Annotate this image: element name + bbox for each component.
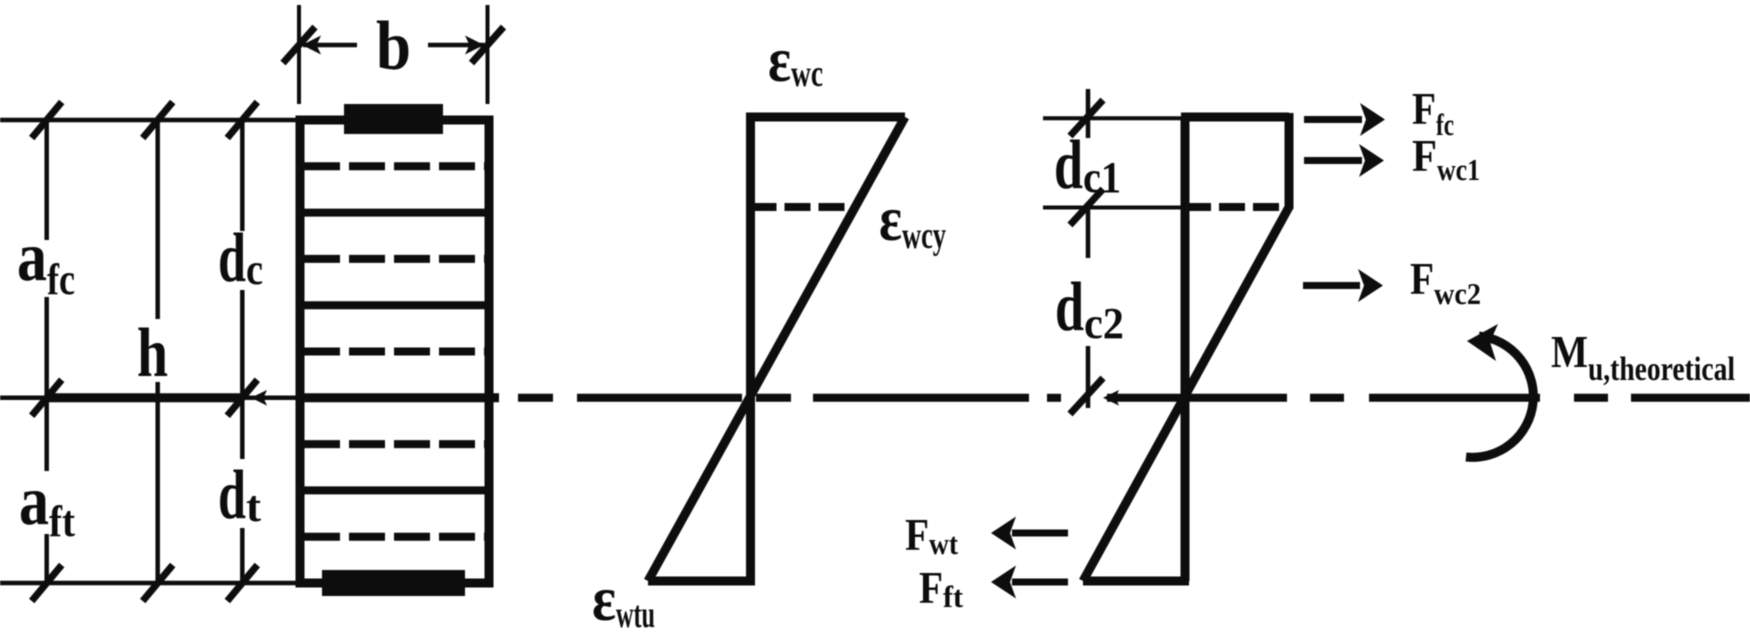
stress block dashed bottom of rectangular part xyxy=(1185,203,1289,211)
centerline dash 9 xyxy=(1574,394,1608,402)
tick mid a_fc xyxy=(32,380,62,416)
beam section outline xyxy=(300,120,489,583)
strain diagram bottom edge xyxy=(648,577,755,586)
tick top h xyxy=(143,102,173,138)
stress block top edge xyxy=(1181,113,1289,122)
dimension line d_c/d_t vertical x=242.3 xyxy=(240,120,245,231)
tick bottom h xyxy=(143,565,173,601)
tick bottom a_ft xyxy=(32,565,62,601)
tick d_c1 bottom xyxy=(1070,189,1103,225)
centerline dash 4 xyxy=(813,394,1029,402)
force arrow F_fc xyxy=(1304,116,1362,123)
dimension line h vertical x=157.7 xyxy=(155,120,160,319)
lamination dashed line 5 xyxy=(304,533,486,541)
dimension line a_fc/a_ft vertical x=46.7 xyxy=(44,120,49,240)
stress block diagonal xyxy=(1083,207,1289,581)
b dimension arrowhead left xyxy=(302,36,321,55)
force arrow F_wc2 xyxy=(1303,282,1360,289)
lamination dashed line 2 xyxy=(304,255,486,263)
mid line small arrowhead xyxy=(251,390,267,406)
lamination solid line 2 xyxy=(300,301,489,309)
force arrow F_wc1 xyxy=(1304,157,1362,164)
tick d_c2 bottom xyxy=(1070,378,1103,414)
lamination dashed line 1 xyxy=(304,162,486,170)
centerline dash 8 xyxy=(1369,394,1540,402)
centerline dash 10 xyxy=(1631,394,1750,402)
lamination solid line 1 xyxy=(300,209,489,217)
mid (neutral axis) line left thin segment xyxy=(0,396,44,401)
section neutral axis line xyxy=(296,393,499,402)
force arrow F_ft xyxy=(1012,579,1068,586)
moment arc arrowhead xyxy=(1467,324,1498,361)
top extension line left section xyxy=(0,118,300,123)
centerline dash 3 xyxy=(756,394,791,402)
b dimension arrowhead right xyxy=(465,36,484,55)
b dimension extension line right xyxy=(486,5,490,104)
svg-text:b: b xyxy=(376,8,411,85)
b dimension line left segment xyxy=(303,43,357,48)
tick bottom d_t xyxy=(227,565,257,601)
tick d_c1 top xyxy=(1070,100,1103,136)
stress block right edge xyxy=(1285,113,1294,209)
tick b right xyxy=(472,27,504,63)
top reinforcement bar xyxy=(344,104,443,134)
strain diagram vertical axis xyxy=(746,117,755,581)
bottom reinforcement bar xyxy=(322,570,465,596)
lamination solid line 3 xyxy=(300,486,489,494)
centerline dash 7 xyxy=(1310,394,1344,402)
tick top a_fc xyxy=(32,102,62,138)
b dimension extension line left xyxy=(297,5,301,104)
stress block bottom edge xyxy=(1083,577,1189,586)
tick b left xyxy=(283,27,315,63)
bottom extension line left section xyxy=(0,581,300,586)
d_c1 bottom extension line xyxy=(1043,206,1181,210)
tick top d_c xyxy=(227,102,257,138)
centerline dash 1 xyxy=(518,394,553,402)
centerline dash 5 xyxy=(1047,394,1061,402)
moment arc M_u xyxy=(1466,336,1533,457)
b dimension line right segment xyxy=(428,43,484,48)
force arrow F_wt xyxy=(1012,530,1068,537)
strain yield dashed line xyxy=(751,203,853,211)
mid line thick segment between ticks xyxy=(46,393,243,402)
lamination dashed line 4 xyxy=(304,440,486,448)
centerline dash 6 with arrowhead xyxy=(1107,394,1287,402)
tick mid d_c xyxy=(227,380,257,416)
d_c dimension vertical segments xyxy=(1086,89,1091,138)
mid line thin segment to section xyxy=(244,396,300,401)
lamination dashed line 3 xyxy=(304,348,486,356)
strain diagram top edge xyxy=(746,113,905,122)
svg-text:h: h xyxy=(137,315,168,392)
strain diagram diagonal xyxy=(648,117,905,581)
stress block vertical axis xyxy=(1181,117,1190,581)
centerline dash 2 xyxy=(577,394,742,402)
d_c1 top extension line xyxy=(1043,116,1181,120)
